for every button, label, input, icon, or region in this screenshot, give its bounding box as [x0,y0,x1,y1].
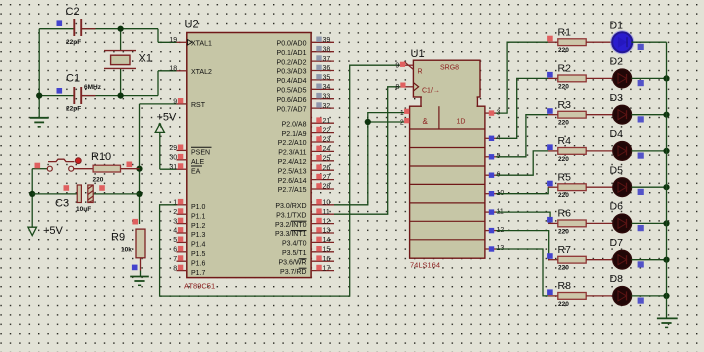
pin 12 P3.2/INT0 of U2 [275,218,334,229]
svg-text:26: 26 [323,165,331,172]
wire crystal bottom stem [120,68,122,95]
svg-text:D6: D6 [610,201,624,213]
pin 9 R of U1 [395,62,413,70]
svg-text:P2.3/A11: P2.3/A11 [278,150,306,157]
svg-text:+5V: +5V [43,225,64,237]
wire RST pin9 to vertical [140,103,177,105]
svg-text:D8: D8 [610,273,624,285]
svg-text:C3: C3 [55,198,69,210]
resistor R3 [548,111,613,118]
svg-text:D4: D4 [610,128,624,140]
resistor R6 [548,220,613,227]
svg-text:9: 9 [395,63,399,70]
svg-text:220: 220 [558,156,569,163]
svg-text:4: 4 [173,228,177,235]
node reset/C3 junction [136,191,142,197]
LED D3 (off) [613,105,632,124]
node cathode bus junction [663,112,669,118]
pin 38 P0.1/AD1 of U2 [277,46,334,57]
svg-text:P3.4/T0: P3.4/T0 [282,241,307,248]
resistor R7 [548,256,613,263]
svg-text:32: 32 [323,103,331,110]
wire U1 Q7 to R8 [496,249,548,296]
wire C2 right to XTAL1 corner [81,28,158,30]
logic square switch left (red) [35,163,41,169]
wire D5 to cathode bus [632,186,667,188]
svg-text:30: 30 [169,155,177,162]
svg-text:22pF: 22pF [66,106,81,113]
svg-text:P0.2/AD2: P0.2/AD2 [277,59,307,66]
wire U1 Q5 to R6 [496,212,550,223]
svg-text:10: 10 [323,200,331,207]
pin 1 A of U1 [400,109,410,117]
node crystal-bottom junction [118,93,124,99]
logic square R2 left (blue) [547,72,553,78]
pin 15 P3.5/T1 of U2 [282,246,334,257]
pin 6 P1.5 of U2 [173,246,205,258]
LED D5 (off) [613,178,632,197]
svg-text:P1.1: P1.1 [191,213,206,220]
svg-text:33: 33 [323,93,331,100]
svg-text:R7: R7 [558,244,572,256]
svg-text:34: 34 [323,84,331,91]
wire P3.0/RXD to U1 data [334,122,405,205]
pin 18 XTAL2 of U2 [169,66,212,77]
logic square C1 left (blue) [57,88,63,94]
svg-text:P3.6/WR: P3.6/WR [278,259,306,266]
node cathode bus junction [663,257,669,263]
pushbutton switch [47,158,81,171]
svg-text:U2: U2 [185,19,199,31]
logic square D3 right (blue) [638,116,644,122]
svg-text:P3.2/INT0: P3.2/INT0 [275,222,307,229]
pin 21 P2.0/A8 of U2 [282,117,334,128]
svg-text:D5: D5 [610,164,624,176]
pin 30 ALE of U2 [169,154,204,166]
pin 12 output of U1 [485,227,504,234]
wire corner down to pin19 row [157,29,159,43]
svg-text:XTAL1: XTAL1 [191,41,212,48]
wire U1 Q2 to R3 [496,115,548,157]
pin 8 clock of U1 [395,83,413,92]
pin 17 P3.7/RD of U2 [280,265,334,276]
pin 4 output of U1 [485,135,501,142]
svg-text:XTAL2: XTAL2 [191,69,212,76]
pin 37 P0.2/AD2 of U2 [277,55,334,66]
svg-text:31: 31 [169,164,177,171]
pin 36 P0.3/AD3 of U2 [277,65,334,76]
LED D1 (lit) [611,31,634,54]
resistor R2 [548,75,613,82]
svg-text:21: 21 [323,118,331,125]
logic square C2 left (blue) [57,20,63,26]
node C3 left junction [29,191,35,197]
pin 13 output of U1 [485,245,504,252]
svg-text:AT89C51: AT89C51 [184,282,215,291]
svg-text:R6: R6 [558,208,572,220]
svg-text:C1/→: C1/→ [422,88,440,95]
pin 2 B of U1 [400,118,410,126]
resistor R4 [548,148,613,155]
svg-text:29: 29 [169,145,177,152]
wire U1 Q0 to R1 [496,42,548,113]
resistor R1 [548,39,613,46]
wire C3 right [93,193,139,195]
svg-text:18: 18 [169,66,177,73]
svg-text:PSEN: PSEN [191,150,210,157]
svg-text:P1.4: P1.4 [191,242,206,249]
pin 13 P3.3/INT1 of U2 [275,227,334,238]
svg-text:22: 22 [323,127,331,134]
node cathode bus junction [663,148,669,154]
svg-text:10uF: 10uF [76,206,91,213]
node cathode bus junction [663,75,669,81]
wire R10 right [121,168,140,170]
pin 26 P2.5/A13 of U2 [278,164,334,175]
logic square R10 right (red) [127,162,133,168]
svg-text:P0.5/AD5: P0.5/AD5 [277,88,307,95]
svg-text:12: 12 [323,218,331,225]
svg-text:15: 15 [323,247,331,254]
svg-text:R4: R4 [558,135,572,147]
svg-text:28: 28 [323,184,331,191]
logic square D1 right (blue) [638,44,644,50]
svg-text:P1.5: P1.5 [191,251,206,258]
svg-text:25: 25 [323,156,331,163]
resistor R10 [93,165,120,172]
svg-text:P0.6/AD6: P0.6/AD6 [277,97,307,104]
wire R9 bottom stub [140,258,142,271]
wire C1 right to corner [81,95,158,97]
svg-text:P1.7: P1.7 [191,270,206,277]
pin 31 EA of U2 [169,163,202,175]
pin 8 P1.7 of U2 [173,265,205,277]
wire D4 to cathode bus [632,150,667,152]
pin 3 output of U1 [485,109,501,116]
svg-text:14: 14 [323,237,331,244]
svg-text:220: 220 [558,265,569,272]
resistor R9 (10k) [136,229,145,258]
wire P1.0 to U1 reset [160,65,401,296]
LED D8 (off) [613,287,632,306]
svg-text:17: 17 [323,265,331,272]
svg-text:27: 27 [323,174,331,181]
wire left rail vertical [31,169,33,228]
svg-text:D7: D7 [610,237,624,249]
LED D2 (off) [613,69,632,88]
svg-text:P3.3/INT1: P3.3/INT1 [275,231,307,238]
wire reset vertical [139,104,141,224]
svg-text:C2: C2 [66,6,80,18]
svg-text:11: 11 [323,209,330,216]
svg-text:D2: D2 [610,56,624,68]
logic square R9 bottom (blue) [132,265,138,271]
crystal X1 [104,51,136,69]
svg-text:16: 16 [323,256,331,263]
pin 34 P0.5/AD5 of U2 [277,84,334,95]
wire D3 to cathode bus [632,114,667,116]
pin 7 P1.6 of U2 [173,255,205,267]
LED D4 (off) [613,142,632,161]
logic square D7 right (blue) [638,261,644,267]
wire crystal top stem [120,29,122,51]
svg-text:R9: R9 [111,232,125,244]
svg-text:3: 3 [173,218,177,225]
pin 22 P2.1/A9 of U2 [282,127,334,138]
op-amp U2 AT89C51 body [187,33,311,278]
wire U1 pin1 jog [368,113,405,122]
node cathode bus junction [663,184,669,190]
svg-text:P0.4/AD4: P0.4/AD4 [277,78,307,85]
svg-text:220: 220 [558,192,569,199]
LED D6 (off) [613,214,632,233]
svg-text:P3.0/RXD: P3.0/RXD [275,203,306,210]
svg-text:P1.2: P1.2 [191,223,206,230]
op-amp U1 74LS164 main block [410,95,485,258]
svg-text:U1: U1 [411,48,425,60]
capacitor C2 [74,19,95,36]
svg-text:P3.7/RD: P3.7/RD [280,269,306,276]
pin 28 P2.7/A15 of U2 [278,183,334,194]
wire U1 Q6 to R7 [496,231,549,260]
node cathode bus junction [663,293,669,299]
wire ground rail vertical [38,29,40,118]
pin 24 P2.3/A11 of U2 [278,146,334,157]
logic square R8 left (blue) [547,289,553,295]
svg-text:37: 37 [323,56,331,63]
svg-text:38: 38 [323,46,331,53]
wire D6 to cathode bus [632,222,667,224]
pin 14 P3.4/T0 of U2 [282,237,334,248]
svg-text:P2.7/A15: P2.7/A15 [278,187,307,194]
svg-text:220: 220 [558,83,569,90]
pin 1 P1.0 of U2 [173,199,205,211]
svg-text:R8: R8 [558,280,572,292]
svg-text:220: 220 [558,228,569,235]
svg-text:23: 23 [323,137,331,144]
pin 27 P2.6/A14 of U2 [278,174,334,185]
svg-text:24: 24 [323,146,331,153]
pin 9 RST of U2 [173,98,205,109]
svg-text:D3: D3 [610,92,624,104]
resistor R5 [548,184,613,191]
node C1 ground junction [36,93,42,99]
logic square R3 left (blue) [547,108,553,114]
logic square R5 left (blue) [547,181,553,187]
svg-text:36: 36 [323,65,331,72]
svg-text:ALE: ALE [191,159,205,166]
wire U1 Q3 to R4 [496,151,548,175]
svg-text:9: 9 [173,99,177,106]
svg-text:74LS164: 74LS164 [410,261,440,270]
logic square D8 right (blue) [638,298,644,304]
svg-text:22pF: 22pF [66,39,81,46]
wire D8 to cathode bus [632,295,667,297]
svg-text:35: 35 [323,75,331,82]
svg-text:&: & [423,117,429,126]
logic square D6 right (blue) [638,225,644,231]
power +5V (reset rail, arrow down) [28,227,37,235]
pin 35 P0.4/AD4 of U2 [277,74,334,85]
wire C1 left [39,95,74,97]
power +5V (to EA pin, arrow up) [155,123,176,169]
pin 32 P0.7/AD7 of U2 [277,102,334,113]
wire P3.1/TXD to U1 clock [334,87,401,214]
wire cathode bus [666,42,668,318]
node crystal-top junction [118,26,124,32]
pin 23 P2.2/A10 of U2 [278,136,334,147]
svg-text:P1.3: P1.3 [191,232,206,239]
pin 16 P3.6/WR of U2 [278,255,334,266]
logic square R9 top (red) [132,219,138,225]
svg-text:P2.1/A9: P2.1/A9 [282,131,307,138]
svg-text:1D: 1D [457,119,466,126]
ground (cathode bus) [657,318,678,327]
svg-text:+5V: +5V [157,111,178,123]
svg-text:220: 220 [558,120,569,127]
logic square R7 left (blue) [547,253,553,259]
svg-text:13: 13 [323,228,331,235]
logic square R6 left (blue) [547,217,553,223]
svg-text:R3: R3 [558,99,572,111]
pin 29 PSEN of U2 [169,145,211,157]
svg-text:1: 1 [400,110,404,117]
svg-text:R: R [418,69,423,76]
ground (below R9) [130,271,149,286]
pin 25 P2.4/A12 of U2 [278,155,334,166]
svg-text:8: 8 [395,84,399,91]
svg-text:R2: R2 [558,63,572,75]
svg-text:P0.3/AD3: P0.3/AD3 [277,69,307,76]
wire D2 to cathode bus [632,77,667,79]
svg-text:P2.5/A13: P2.5/A13 [278,168,307,175]
ground (crystal network) [30,118,49,127]
svg-text:220: 220 [558,47,569,54]
wire to XTAL1 pin 19 [158,41,177,43]
op-amp U1 74LS164 control block [413,60,480,97]
wire D7 to cathode bus [632,259,667,261]
svg-text:R10: R10 [91,151,111,163]
svg-text:P0.1/AD1: P0.1/AD1 [277,50,307,57]
pin 19 XTAL1 of U2 [169,37,212,48]
svg-text:P2.6/A14: P2.6/A14 [278,178,307,185]
svg-text:D1: D1 [610,19,624,31]
svg-text:220: 220 [558,301,569,308]
pin marker U1 clock chevron [413,83,418,91]
svg-text:220: 220 [93,177,104,184]
logic square R1 left (red) [547,36,553,42]
LED D7 (off) [613,250,632,269]
pin 6 output of U1 [485,171,501,178]
svg-text:P1.0: P1.0 [191,204,206,211]
capacitor C1 [74,87,95,104]
svg-text:10k: 10k [121,247,132,254]
wire C2 left to ground rail [39,28,74,30]
logic square D4 right (blue) [638,153,644,159]
svg-text:6MHz: 6MHz [84,84,102,91]
wire switch to R10 [74,168,93,170]
pin 11 output of U1 [485,208,504,215]
svg-text:P3.5/T1: P3.5/T1 [282,250,307,257]
svg-text:5: 5 [173,237,177,244]
svg-text:P3.1/TXD: P3.1/TXD [276,212,306,219]
pin 39 P0.0/AD0 of U2 [277,37,334,48]
pin 33 P0.6/AD6 of U2 [277,93,334,104]
svg-text:C1: C1 [66,73,80,85]
svg-text:2: 2 [173,209,177,216]
svg-text:2: 2 [400,119,404,126]
node U1 data junction [365,119,371,125]
wire U1 Q4 to R5 [496,187,548,194]
svg-text:SRG8: SRG8 [440,65,459,72]
svg-text:39: 39 [323,37,331,44]
logic square C3 left (red) [64,185,70,191]
pin 10 output of U1 [485,190,504,197]
wire D1 to cathode bus [632,41,667,43]
wire U1 Q1 to R2 [496,78,548,138]
resistor R8 [548,293,613,300]
svg-text:8: 8 [173,265,177,272]
logic square D2 right (blue) [638,80,644,86]
wire switch left to left rail [32,168,47,170]
capacitor C3 (10uF electrolytic) [77,185,93,203]
wire C3 left [32,193,77,195]
svg-text:P2.0/A8: P2.0/A8 [282,121,307,128]
pin marker XTAL1 arrow [188,40,193,46]
pin 4 P1.3 of U2 [173,227,205,239]
logic square R4 left (blue) [547,144,553,150]
svg-text:P0.0/AD0: P0.0/AD0 [277,41,307,48]
svg-text:P2.4/A12: P2.4/A12 [278,159,307,166]
svg-text:RST: RST [191,102,206,109]
svg-text:EA: EA [191,168,201,175]
wire to XTAL2 pin 18 [158,70,177,72]
svg-text:P1.6: P1.6 [191,260,206,267]
pin 10 P3.0/RXD of U2 [275,199,334,210]
logic square D5 right (blue) [638,189,644,195]
node reset/R10 junction [136,166,142,172]
node cathode bus junction [663,220,669,226]
svg-text:R1: R1 [558,26,572,38]
svg-text:R5: R5 [558,171,572,183]
pin 11 P3.1/TXD of U2 [276,208,334,219]
logic square C3 right (red) [99,185,105,191]
wire corner up to pin18 row [157,71,159,96]
svg-text:P0.7/AD7: P0.7/AD7 [277,106,307,113]
pin 3 P1.2 of U2 [173,218,205,230]
svg-text:X1: X1 [139,53,152,65]
svg-text:19: 19 [169,37,177,44]
pin 2 P1.1 of U2 [173,208,205,220]
svg-text:6: 6 [173,247,177,254]
pin 5 output of U1 [485,153,501,160]
pin 5 P1.4 of U2 [173,237,205,249]
svg-text:7: 7 [173,256,177,263]
svg-text:P2.2/A10: P2.2/A10 [278,140,307,147]
